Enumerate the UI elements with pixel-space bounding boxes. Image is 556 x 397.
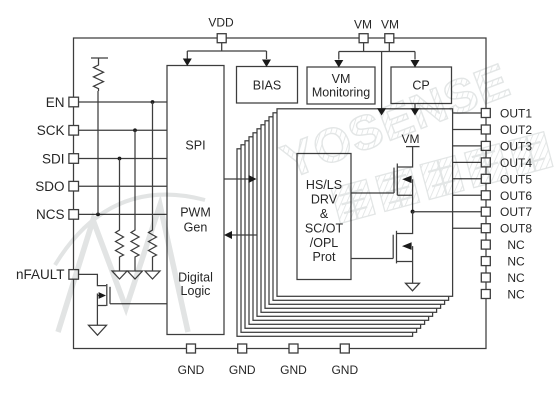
- pin nFAULT: [16, 267, 79, 282]
- svg-text:NC: NC: [507, 288, 525, 302]
- svg-text:BIAS: BIAS: [253, 79, 282, 93]
- svg-text:PWM: PWM: [180, 206, 211, 220]
- arrow CP into output stage: [411, 108, 420, 115]
- watermark logo bottom-left: [55, 195, 205, 332]
- block BIAS: [237, 67, 298, 104]
- output stage stack (8 channels): [237, 109, 453, 336]
- pin OUT3: [481, 139, 532, 153]
- svg-text:SDO: SDO: [35, 179, 64, 194]
- svg-text:NC: NC: [507, 238, 525, 252]
- block HS/LS DRV & SC/OT/OPL Prot U-DRV: [297, 154, 351, 280]
- wire HS/LS DRV to Q2 gate: [351, 258, 393, 260]
- node NCS pullup tap: [96, 213, 100, 217]
- svg-text:Gen: Gen: [184, 221, 208, 235]
- node SDI pulldown tap: [118, 157, 122, 161]
- pin GND 1: [178, 344, 205, 377]
- svg-text:GND: GND: [280, 363, 307, 377]
- arrow VDD to SPI: [183, 59, 192, 67]
- pin GND 4: [331, 344, 358, 377]
- svg-text:VM: VM: [354, 18, 372, 32]
- pin EN: [46, 95, 79, 110]
- node VM supply tick: [402, 132, 420, 147]
- pin GND 3: [280, 344, 307, 377]
- wire VM rail: [339, 43, 415, 60]
- wire Q3 gate to Digital Logic: [110, 303, 167, 305]
- wire OUT8 stub: [453, 227, 482, 229]
- svg-text:SCK: SCK: [37, 123, 65, 138]
- wire HS/LS DRV to Q1 gate: [351, 192, 394, 194]
- svg-text:NCS: NCS: [36, 207, 65, 222]
- transistor Q2 low-side: [393, 212, 412, 284]
- svg-text:OUT8: OUT8: [500, 222, 532, 236]
- pin OUT5: [481, 172, 532, 186]
- svg-text:GND: GND: [229, 363, 256, 377]
- svg-text:GND: GND: [331, 363, 358, 377]
- pin OUT4: [481, 156, 532, 170]
- wire VM feed to output stage: [381, 52, 383, 110]
- svg-text:&: &: [320, 207, 329, 221]
- wire OUT4 stub: [453, 161, 482, 163]
- pin SDO: [35, 179, 78, 194]
- svg-text:VM: VM: [381, 18, 399, 32]
- transistor Q1 high-side: [394, 147, 413, 212]
- pin VDD: [208, 16, 234, 43]
- svg-text:GND: GND: [178, 363, 205, 377]
- pin OUT8: [481, 222, 532, 236]
- wire OUT2 stub: [453, 129, 482, 131]
- wire SDI to SPI: [78, 158, 167, 160]
- pin SDI: [42, 151, 79, 166]
- arrow VM into output stage: [377, 108, 386, 115]
- node SCK pulldown tap: [133, 128, 137, 132]
- ground nFAULT source: [89, 325, 107, 335]
- wire OUT3 stub: [453, 145, 482, 147]
- svg-text:SDI: SDI: [42, 151, 65, 166]
- wire OUT6 stub: [453, 194, 482, 196]
- pin SCK: [37, 123, 79, 138]
- wire EN to SPI: [78, 101, 167, 103]
- wire SCK to SPI: [78, 129, 167, 131]
- pin VM2: [381, 18, 399, 43]
- ground SCK pulldown: [128, 271, 143, 279]
- svg-text:SPI: SPI: [185, 139, 205, 153]
- svg-text:Prot: Prot: [313, 250, 336, 264]
- svg-text:OUT6: OUT6: [500, 189, 532, 203]
- resistor pull-down SCK: [131, 130, 139, 271]
- block SPI / PWM Gen / Digital Logic: [167, 66, 224, 335]
- svg-text:OUT1: OUT1: [500, 107, 532, 121]
- pin OUT1: [481, 107, 532, 121]
- arrow SPI to output stage: [249, 175, 257, 183]
- svg-text:OUT2: OUT2: [500, 123, 532, 137]
- wire pullup to NCS: [97, 91, 99, 214]
- arrow VDD to BIAS: [262, 60, 271, 68]
- ground EN pulldown: [145, 271, 160, 279]
- pin GND 2: [229, 344, 256, 377]
- block VM Monitoring: [307, 67, 375, 104]
- pin NC 3: [481, 271, 525, 285]
- pin NC 4: [481, 288, 525, 302]
- wire SDO to SPI: [78, 185, 167, 187]
- pin NC 2: [481, 255, 525, 269]
- transistor Q3 nFAULT open-drain: [97, 284, 110, 325]
- ground SDI pulldown: [112, 271, 127, 279]
- svg-text:EN: EN: [46, 95, 65, 110]
- pin NC 1: [481, 238, 525, 252]
- wire OUT1 stub: [453, 112, 482, 114]
- arrow VM to CP: [411, 60, 420, 68]
- node Q1-Q2 junction: [411, 210, 415, 214]
- wire NCS to SPI: [78, 213, 167, 215]
- svg-text:nFAULT: nFAULT: [16, 267, 65, 282]
- svg-text:Logic: Logic: [181, 284, 211, 298]
- node EN pulldown tap: [151, 100, 155, 104]
- ground Q2 source: [406, 283, 420, 291]
- svg-text:/OPL: /OPL: [310, 236, 339, 250]
- wire nFAULT to Q3 drain: [78, 274, 106, 285]
- arrow output stage to PWM Gen: [224, 231, 232, 239]
- pin OUT6: [481, 189, 532, 203]
- wire OUT5 stub: [453, 178, 482, 180]
- pin OUT2: [481, 123, 532, 137]
- svg-text:VDD: VDD: [208, 16, 234, 30]
- svg-text:Digital: Digital: [178, 271, 213, 285]
- resistor pull-down SDI: [116, 159, 124, 272]
- pin VM1: [354, 18, 372, 43]
- pin NCS: [36, 207, 79, 222]
- watermark text YOSENSE: [275, 54, 517, 189]
- svg-text:VM: VM: [332, 72, 351, 86]
- wire output stage to PWM Gen: [232, 234, 257, 236]
- resistor pull-up on NCS: [91, 58, 108, 91]
- resistor pull-down EN: [149, 102, 157, 271]
- wire SPI to output stage: [224, 178, 249, 180]
- svg-text:NC: NC: [507, 271, 525, 285]
- svg-text:SC/OT: SC/OT: [305, 222, 344, 236]
- chip boundary: [74, 38, 487, 349]
- svg-text:OUT7: OUT7: [500, 205, 532, 219]
- wire CP to output stage: [414, 104, 416, 110]
- wire node to OUT7: [413, 211, 482, 213]
- arrow VM to VM Monitoring: [334, 60, 343, 68]
- svg-text:Monitoring: Monitoring: [312, 86, 370, 100]
- pin OUT7: [481, 205, 532, 219]
- watermark text chinese: [331, 132, 553, 224]
- wire VDD rail: [187, 43, 266, 59]
- svg-text:NC: NC: [507, 255, 525, 269]
- block CP: [391, 67, 452, 104]
